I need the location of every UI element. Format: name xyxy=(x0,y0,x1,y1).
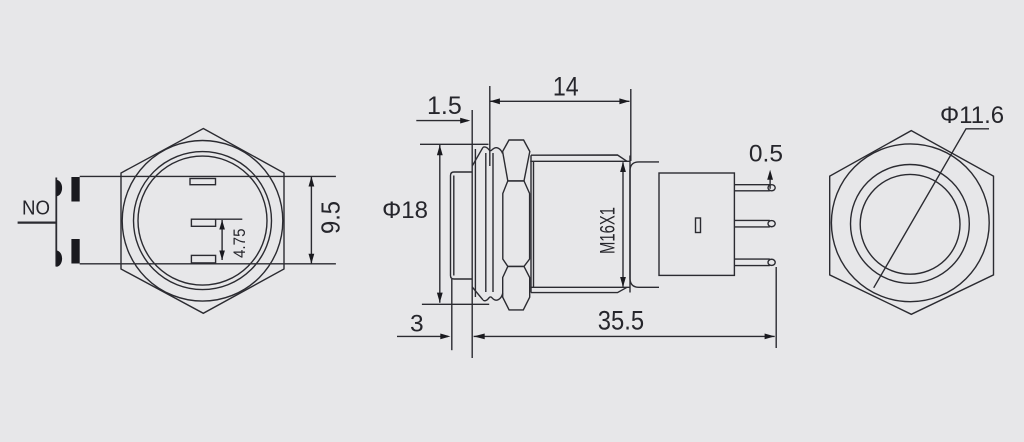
svg-text:0.5: 0.5 xyxy=(749,141,783,168)
outer circle (flange front) xyxy=(831,144,989,302)
collar xyxy=(630,162,659,287)
svg-text:35.5: 35.5 xyxy=(598,306,644,336)
bezel ring outer circle xyxy=(134,152,272,290)
svg-text:3: 3 xyxy=(410,311,424,338)
svg-text:NO: NO xyxy=(22,197,50,219)
dimension 9.5 arrow up xyxy=(309,176,315,186)
connector bump top (half disc) xyxy=(56,180,62,196)
threaded barrel crest bottom xyxy=(531,287,627,292)
dimension phi11.6 leader xyxy=(874,129,989,288)
dimension 35.5 right extension xyxy=(775,267,777,348)
hex nut top facet xyxy=(503,140,530,181)
terminal slot bottom xyxy=(191,255,215,263)
dimension 35.5 arrow right xyxy=(765,334,775,340)
button cap face xyxy=(450,176,452,276)
pin 3 (bottom) xyxy=(734,259,769,266)
dimension 14 left extension xyxy=(489,86,491,166)
dimension 4.75 arrow up xyxy=(219,220,225,230)
bezel circle xyxy=(851,165,970,284)
dimension phi18 line xyxy=(439,145,441,303)
dimension 1.5 arrow xyxy=(460,118,470,124)
dimension 4.75 extension line xyxy=(216,218,243,220)
dimension 3 arrow xyxy=(440,334,450,340)
flange inner face line xyxy=(474,149,476,297)
threaded barrel root bottom xyxy=(530,286,630,288)
dimension 4.75 line xyxy=(221,220,223,260)
dimension phi18 bottom extension xyxy=(422,303,489,305)
threaded barrel crest top xyxy=(531,155,627,161)
dimension 1.5 leader xyxy=(416,120,468,122)
body xyxy=(659,173,734,275)
connector body vertical line xyxy=(55,178,57,267)
washer left vertical xyxy=(485,153,487,292)
dimension M16X1 arrow up xyxy=(620,162,626,172)
dimension 3 line xyxy=(397,335,448,337)
dimension 9.5 line xyxy=(310,176,312,263)
dimension 14 arrow left xyxy=(490,98,500,104)
hexagon (front) xyxy=(830,131,994,315)
body slot xyxy=(696,218,701,233)
outer circle (flange) xyxy=(122,141,283,302)
button cap inner line xyxy=(453,176,455,276)
dimension 0.5 arrow up xyxy=(767,170,773,180)
dimension 14 arrow right xyxy=(619,98,629,104)
dimension phi18 arrow up xyxy=(437,145,443,155)
dimension 9.5 arrow down xyxy=(309,254,315,264)
bezel ring inner circle xyxy=(138,156,267,285)
flange/washer bottom profile xyxy=(483,293,503,300)
hexagon (rear nut) xyxy=(121,129,284,314)
pin 2 tip xyxy=(768,221,775,227)
dimension 35.5 arrow left xyxy=(474,334,485,340)
dimension 0.5 arrow line xyxy=(769,179,771,189)
pin 2 (middle) xyxy=(734,220,769,227)
connector bump bottom (half disc) xyxy=(56,251,62,267)
pin 3 tip xyxy=(768,259,775,265)
button face circle xyxy=(860,174,960,274)
dimension M16X1 arrow down xyxy=(620,277,626,287)
terminal pin bar bottom (filled) xyxy=(71,239,79,264)
dimension 35.5 line xyxy=(474,335,775,337)
svg-text:M16X1: M16X1 xyxy=(597,207,620,254)
hex nut middle facet xyxy=(503,181,530,267)
washer right vertical xyxy=(492,153,494,292)
dimension 3 extension (cap face) xyxy=(451,279,453,350)
terminal slot top xyxy=(190,179,216,185)
button cap outline xyxy=(451,172,473,279)
terminal slot middle xyxy=(191,219,215,226)
flange bottom chamfer xyxy=(472,287,483,300)
threaded barrel root top xyxy=(530,160,630,162)
svg-text:Φ18: Φ18 xyxy=(382,197,428,224)
svg-text:1.5: 1.5 xyxy=(427,92,462,120)
svg-text:9.5: 9.5 xyxy=(318,201,346,234)
flange/washer top profile xyxy=(483,147,503,154)
threaded barrel right face xyxy=(629,156,631,293)
pin 1 tip xyxy=(768,185,775,191)
dimension 14 right extension xyxy=(630,89,632,161)
terminal pin bar top (filled) xyxy=(71,177,79,202)
threaded barrel left face xyxy=(531,155,534,292)
svg-text:14: 14 xyxy=(553,72,579,102)
svg-text:4.75: 4.75 xyxy=(230,229,249,259)
pin 1 (top) xyxy=(734,185,769,191)
NO leader line xyxy=(18,222,57,224)
wire: lower horizontal line across view xyxy=(80,263,336,265)
hex nut bottom facet xyxy=(503,266,530,310)
dimension 14 line xyxy=(490,100,630,102)
flange face / 1.5 extension line xyxy=(471,110,473,358)
wire: upper horizontal line across view xyxy=(80,175,336,177)
flange top chamfer xyxy=(472,147,483,166)
dimension 4.75 arrow down xyxy=(219,251,225,261)
dimension phi18 top extension xyxy=(420,143,489,145)
dimension phi18 arrow down xyxy=(437,293,443,303)
dimension M16X1 line xyxy=(622,162,624,286)
svg-text:Φ11.6: Φ11.6 xyxy=(940,102,1004,129)
